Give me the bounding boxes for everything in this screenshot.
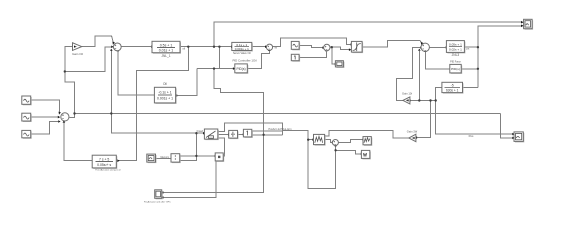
svg-text:PID Controller 1Oil: PID Controller 1Oil [232, 58, 256, 62]
wire: S3 output over the top into switch2 input 1 [273, 38, 351, 47]
wire: sine2 output into S4 [299, 45, 322, 47]
wire: S4 tap down into small scope SB [332, 47, 335, 64]
svg-text:0.05s + 1: 0.05s + 1 [449, 43, 462, 47]
wire: Gain Oil output over the top into S1 [82, 36, 114, 46]
switch SW2 (saturation icon) [351, 41, 363, 53]
scope Scope3 [147, 154, 157, 163]
scope Scope4 [144, 190, 171, 204]
wire: branch down into Gain 1W input [417, 101, 430, 138]
sum S2 port signs [62, 114, 64, 118]
wire: line into mux input 1 and Qbox left [180, 155, 214, 157]
sum S5 port signs [422, 45, 426, 51]
svg-text:JNL3: JNL3 [452, 53, 460, 57]
svg-text:Memory: Memory [160, 156, 169, 159]
junction dots [187, 46, 189, 48]
wire: distribution drop into Oil block input [177, 69, 197, 96]
transfer function Servo Valve Oil [232, 42, 253, 55]
svg-text:0.001s + 1: 0.001s + 1 [235, 47, 249, 51]
wire: source 3 into S2 lower left [31, 122, 59, 135]
wire: vertical after TF3 down to PID2 and -5/630 inputs [477, 26, 479, 88]
wire: junction into -5/630 input (right side) [463, 87, 478, 89]
wire: S5 output into TF3 [430, 46, 446, 48]
svg-text:PID Force: PID Force [450, 61, 461, 64]
wire: Qbox output down into Scope4 input 2 [163, 161, 216, 198]
wire: TF1 output tap up to top scope line [214, 22, 521, 47]
quantizer Q2 [243, 129, 252, 138]
svg-text:7 s + 5: 7 s + 5 [99, 157, 109, 161]
unit delay block [229, 130, 239, 139]
svg-text:-5: -5 [451, 84, 454, 88]
svg-text:JNL_1: JNL_1 [161, 54, 170, 58]
wire: line to B1 input with drop [282, 131, 312, 140]
wire: constant output up into S4 bottom [299, 51, 326, 57]
wire: PID2 output up into S5 bottom [425, 52, 450, 69]
transfer function TF3 [446, 41, 465, 58]
wire: B1 output into S6 left [325, 140, 332, 143]
wire: S6 output into F1 [339, 140, 363, 143]
gain Gain Oil inner value [74, 46, 76, 48]
wire: drop down around to S6 bottom and B2 [308, 140, 335, 189]
gain Gain 10i (left pointing) [402, 91, 412, 104]
source sine 3 [22, 130, 32, 138]
wire: Gain 1W output around into B1 right-top [325, 130, 409, 138]
wire: S1 output into TF1 [121, 46, 151, 48]
wire: bus branch up to Gain Oil input [65, 47, 75, 114]
transfer function -5/630s+1 [442, 82, 464, 93]
sum S6 [332, 140, 338, 146]
svg-text:630s + 1: 630s + 1 [446, 89, 459, 93]
svg-text:Servo Valve Oil: Servo Valve Oil [233, 51, 251, 55]
wire: Q2 output line B [252, 134, 282, 136]
arrowheads [521, 21, 524, 24]
svg-text:Oil: Oil [163, 82, 167, 86]
wire: -5/630 output down and right into Scope2 input 1 [436, 88, 513, 135]
wire: PID1 output up into S3 bottom [247, 51, 269, 68]
wire: Oil block output up into S1 bottom [118, 51, 155, 95]
wire: distribution line into PID1 [197, 68, 233, 70]
scope Scope2 [514, 132, 524, 143]
svg-text:Gain 10i: Gain 10i [402, 91, 412, 95]
sum S1 [113, 43, 121, 51]
wire: TF1 output main line into TF2 [180, 46, 231, 48]
wire: TF3 output to junction [464, 46, 478, 48]
wire: branch right into B2 [336, 150, 361, 154]
svg-text:PosArm & POut-Arm: PosArm & POut-Arm [268, 128, 291, 131]
wire: source 2 into S2 left [31, 116, 58, 118]
svg-text:Gain Oil: Gain Oil [72, 52, 83, 56]
svg-text:oil: oil [183, 46, 186, 50]
wire: source 1 into S2 top [31, 100, 60, 113]
wire: TF2 output into S3 [252, 46, 265, 48]
scope M2 (top right) [524, 19, 534, 29]
wire: bus tap down to switch input (Fixed) [111, 114, 203, 134]
svg-text:0.02s + 1: 0.02s + 1 [449, 48, 462, 52]
sum S4 port signs [325, 46, 327, 49]
source sine wave 4 [291, 41, 300, 50]
sum S3 port signs [268, 46, 270, 49]
svg-text:ForceActuator and jack oil: ForceActuator and jack oil [95, 169, 121, 172]
wire: bus drop into Scope2 input 2 [501, 114, 513, 138]
source sine 1 [22, 96, 32, 105]
PID controller PID1 [232, 58, 256, 74]
wire: Q2 output line A [252, 130, 282, 132]
svg-text:PosActuator and after 'GPC: PosActuator and after 'GPC [144, 200, 171, 203]
wire: switch1 bottom output down into Qbox right [218, 138, 225, 156]
sum S4 [324, 44, 330, 50]
wire: Fixed line drop to mux input 2 [180, 133, 196, 160]
transfer function JNL_1 [152, 41, 181, 58]
gain Gain 1W (left pointing) [407, 130, 418, 142]
svg-text:Pos: Pos [469, 134, 474, 138]
svg-text:0.05s²+ s: 0.05s²+ s [97, 163, 111, 167]
gain Gain 10i inner value [406, 99, 408, 101]
source constant 1 [291, 54, 300, 61]
block B2 (memory) [361, 150, 370, 159]
small scope SB [335, 61, 344, 68]
svg-text:Gain 1W: Gain 1W [407, 130, 418, 134]
block F1 (filter waveform) [363, 137, 372, 146]
sum S5 [421, 43, 429, 51]
wire: TF3 output tap up to scope line 2 [478, 26, 521, 47]
svg-text:-0.1s + 1: -0.1s + 1 [158, 91, 171, 95]
wire: switch1 top output bypass up over to x=282 [218, 123, 282, 135]
wire: switch1 middle output into delay block [218, 134, 228, 136]
wire: y100.5 line tap up into S5 bottom-left [418, 51, 420, 101]
svg-text:Fixed: Fixed [197, 129, 204, 133]
wire: feedback block output up into S2 bottom [64, 123, 92, 161]
wire: switch2 output into S5 top [362, 40, 422, 47]
sum S2 [61, 113, 69, 121]
wire: S4 output into switch2 input 2 [330, 47, 349, 50]
svg-text:0.001s + 1: 0.001s + 1 [157, 96, 173, 100]
sum S3 [266, 44, 272, 50]
mux M1 [160, 154, 180, 163]
transfer function Oil [154, 82, 176, 104]
BLOCKS_START [64, 46, 479, 158]
PID controller PID2 [450, 61, 462, 74]
switch SW1 [197, 129, 219, 140]
wire: long horizontal bus y=113.5 [75, 113, 501, 115]
svg-text:0.5s + 1: 0.5s + 1 [160, 43, 173, 47]
wire: delay output into Q2 [238, 133, 243, 135]
source sine 2 [22, 113, 32, 122]
wire: mux output into Scope3 [156, 157, 171, 159]
wire: bus tap up into S1 bottom-left [110, 51, 112, 114]
wire: y100.5 feedback line into gain10 input [411, 100, 436, 102]
gain Gain Oil [72, 43, 83, 56]
svg-text:0.01s + 1: 0.01s + 1 [159, 49, 174, 53]
svg-text:PID(s): PID(s) [236, 67, 245, 71]
wire: branch right to S1 left input [65, 47, 111, 72]
sum S1 port signs [115, 45, 117, 49]
transfer function feedback 7s+5 [92, 155, 121, 171]
gain Gain 1W inner value [412, 137, 414, 139]
wire: main line tap down to distribution line [218, 47, 220, 69]
svg-text:PID(s): PID(s) [451, 67, 460, 71]
wire: gain10 output up into S5 left input [396, 48, 420, 101]
block Qbox [215, 153, 224, 162]
wire: S2 output up to long bus junction [69, 114, 74, 118]
wire: tap down around to Scope4 input 1 [163, 69, 263, 193]
block B1 (waveform) [314, 134, 326, 145]
sum S6 port signs [334, 141, 336, 144]
wire: junction into PID2 input (right side) [462, 68, 478, 70]
wire: main line tap down-left into feedback block input [117, 47, 188, 161]
